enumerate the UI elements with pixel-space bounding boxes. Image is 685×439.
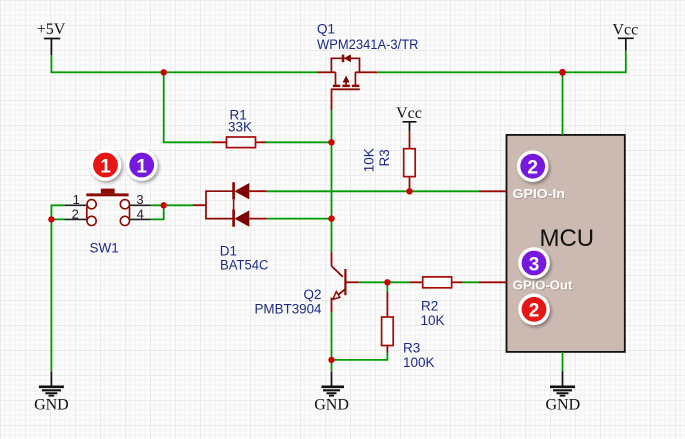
svg-text:WPM2341A-3/TR: WPM2341A-3/TR [317,37,419,52]
svg-text:4: 4 [137,207,144,222]
svg-text:1: 1 [136,156,147,177]
svg-text:2: 2 [527,158,538,179]
svg-text:3: 3 [136,192,143,207]
svg-text:10K: 10K [421,313,445,328]
svg-text:100K: 100K [403,355,435,370]
svg-text:D1: D1 [220,244,237,259]
svg-text:GND: GND [34,397,69,414]
svg-text:SW1: SW1 [90,241,119,256]
svg-text:R2: R2 [421,299,438,314]
svg-text:3: 3 [529,254,540,275]
svg-text:BAT54C: BAT54C [220,257,269,272]
svg-text:PMBT3904: PMBT3904 [255,302,322,317]
svg-text:GND: GND [314,397,349,414]
svg-text:GPIO-In: GPIO-In [513,186,566,201]
svg-text:R3: R3 [403,341,420,356]
svg-text:10K: 10K [362,148,377,172]
svg-text:R3: R3 [377,149,392,166]
svg-text:Q1: Q1 [317,22,335,37]
svg-text:2: 2 [72,207,79,222]
svg-text:+5V: +5V [37,21,66,38]
svg-text:GND: GND [545,397,580,414]
svg-text:33K: 33K [228,120,252,135]
svg-text:MCU: MCU [539,225,594,252]
svg-text:1: 1 [100,156,111,177]
svg-text:Vcc: Vcc [396,105,422,122]
svg-text:2: 2 [529,301,540,322]
svg-text:1: 1 [73,192,80,207]
svg-text:Q2: Q2 [303,287,321,302]
svg-text:Vcc: Vcc [612,22,638,39]
svg-text:GPIO-Out: GPIO-Out [513,278,573,293]
